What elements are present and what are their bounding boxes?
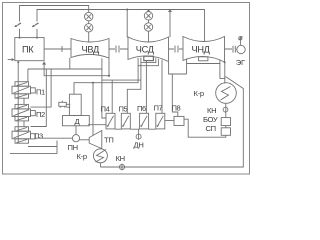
wire extraction to P7 (161, 60, 163, 114)
heater P3 (12, 127, 35, 144)
valve slash on reheat riser (33, 23, 39, 27)
svg-text:ДН: ДН (134, 141, 144, 150)
svg-text:ПН: ПН (68, 143, 78, 152)
deaerator D tank (63, 116, 90, 126)
wire feedwater through HP heaters (17, 61, 19, 144)
shaft coupling IP-LP (169, 46, 184, 53)
heater P5 (121, 113, 130, 129)
valve V4 IP control (144, 23, 152, 31)
wire header to IP inlet corner (127, 10, 128, 38)
wire PN-TP shaft (80, 139, 90, 141)
svg-text:П7: П7 (154, 104, 163, 113)
svg-text:К-р: К-р (194, 89, 204, 98)
valve slash on fresh steam riser (15, 23, 21, 27)
wire main steam PK to HP inlet (44, 46, 71, 52)
svg-text:ЭГ: ЭГ (236, 58, 245, 67)
svg-text:К-р: К-р (77, 152, 87, 161)
wire cold reheat (44, 63, 109, 76)
wire LP exhaust to condenser mid (224, 62, 226, 84)
turbine drive TP (89, 131, 102, 149)
condenser K-r main (216, 83, 237, 104)
wire condenser to drain riser (100, 77, 243, 168)
wire condensate SP to P8 (184, 119, 226, 137)
wire branch to IP valves (148, 10, 150, 13)
wire extraction to P8 (169, 62, 187, 74)
wire LP exhaust to condenser left (220, 64, 226, 79)
svg-text:ТП: ТП (104, 136, 114, 145)
svg-text:ЧСД: ЧСД (136, 44, 155, 54)
boiler PK (15, 38, 44, 61)
heater P6 (140, 113, 149, 129)
heater P7 (156, 113, 165, 129)
svg-text:П5: П5 (119, 105, 128, 114)
HP exhaust hood bracket (70, 58, 102, 69)
gland heater SP (221, 128, 230, 136)
junction dots boiler top (19, 37, 21, 39)
heater P4 (106, 113, 115, 129)
wire makeup water stub (8, 59, 13, 61)
valve V2 HP control (85, 24, 93, 32)
LP exhaust inner chamber (199, 57, 208, 61)
wire IP extraction to deaerator and TP (74, 66, 138, 95)
wire HP extraction header (28, 68, 70, 70)
vent device on deaerator (59, 101, 71, 108)
wire branch to TP drive turbine (92, 83, 94, 136)
feed pump PN (75, 126, 77, 135)
wire drain P2 to P3 (23, 121, 25, 127)
wire IP exhaust crossover riser (169, 10, 171, 38)
svg-text:П8: П8 (172, 104, 181, 113)
pump KN2 on bottom line (119, 164, 124, 169)
wire valves to IP inlet (148, 20, 150, 23)
heater P8 (174, 116, 184, 125)
wire fresh steam: boiler top to HP valves (20, 6, 89, 22)
drain pump DN (136, 134, 141, 139)
turbine LP cylinder ChND (183, 37, 225, 63)
IP exhaust middle bracket (141, 58, 156, 63)
generator EG (237, 45, 245, 53)
wire extraction to P2 (31, 69, 52, 107)
wire valves to HP inlet (88, 21, 90, 24)
IP exhaust inner chamber (144, 56, 154, 60)
wire PN discharge to P3 (35, 137, 72, 139)
svg-text:П1: П1 (36, 87, 45, 96)
svg-text:ЧВД: ЧВД (82, 44, 100, 54)
wire extraction to P3 (31, 69, 47, 127)
valve V1 HP stop (85, 12, 93, 20)
wire hot reheat header (37, 10, 205, 42)
wire extraction to P1 (27, 69, 29, 82)
wire drain steps bottom left (10, 141, 57, 154)
wire condensate heater chain (88, 120, 174, 129)
border frame (3, 3, 250, 175)
svg-text:П3: П3 (34, 132, 43, 141)
wire extraction to P6 (145, 61, 147, 114)
deaerator D column (69, 94, 81, 115)
svg-text:П4: П4 (101, 105, 110, 114)
wire extraction to P4 (102, 69, 106, 118)
heater P2 (12, 104, 35, 121)
svg-text:КН: КН (207, 106, 216, 115)
pump KN main condensate (225, 103, 227, 117)
svg-text:ЧНД: ЧНД (192, 44, 211, 54)
svg-text:П6: П6 (137, 104, 146, 113)
condenser K-r TP (93, 149, 107, 163)
turbine HP cylinder ChVD (71, 39, 109, 59)
IP exhaust outer bracket (138, 58, 158, 66)
svg-text:ПК: ПК (22, 45, 34, 55)
svg-text:БОУ: БОУ (203, 115, 218, 124)
demineralizer BOU (221, 118, 230, 126)
heater P1 (12, 82, 35, 99)
svg-text:Д: Д (75, 117, 80, 126)
wire extraction to P5 (127, 63, 141, 114)
shaft coupling LP-generator (225, 46, 238, 53)
svg-text:КН: КН (116, 154, 125, 163)
svg-text:П2: П2 (36, 110, 45, 119)
valve V3 IP stop (144, 12, 152, 20)
shaft coupling HP-IP (109, 46, 128, 53)
LP exhaust bracket (187, 59, 220, 64)
svg-text:СП: СП (206, 124, 216, 133)
turbine IP cylinder ChSD (128, 37, 169, 62)
wire drain P1 to P2 (23, 98, 25, 104)
